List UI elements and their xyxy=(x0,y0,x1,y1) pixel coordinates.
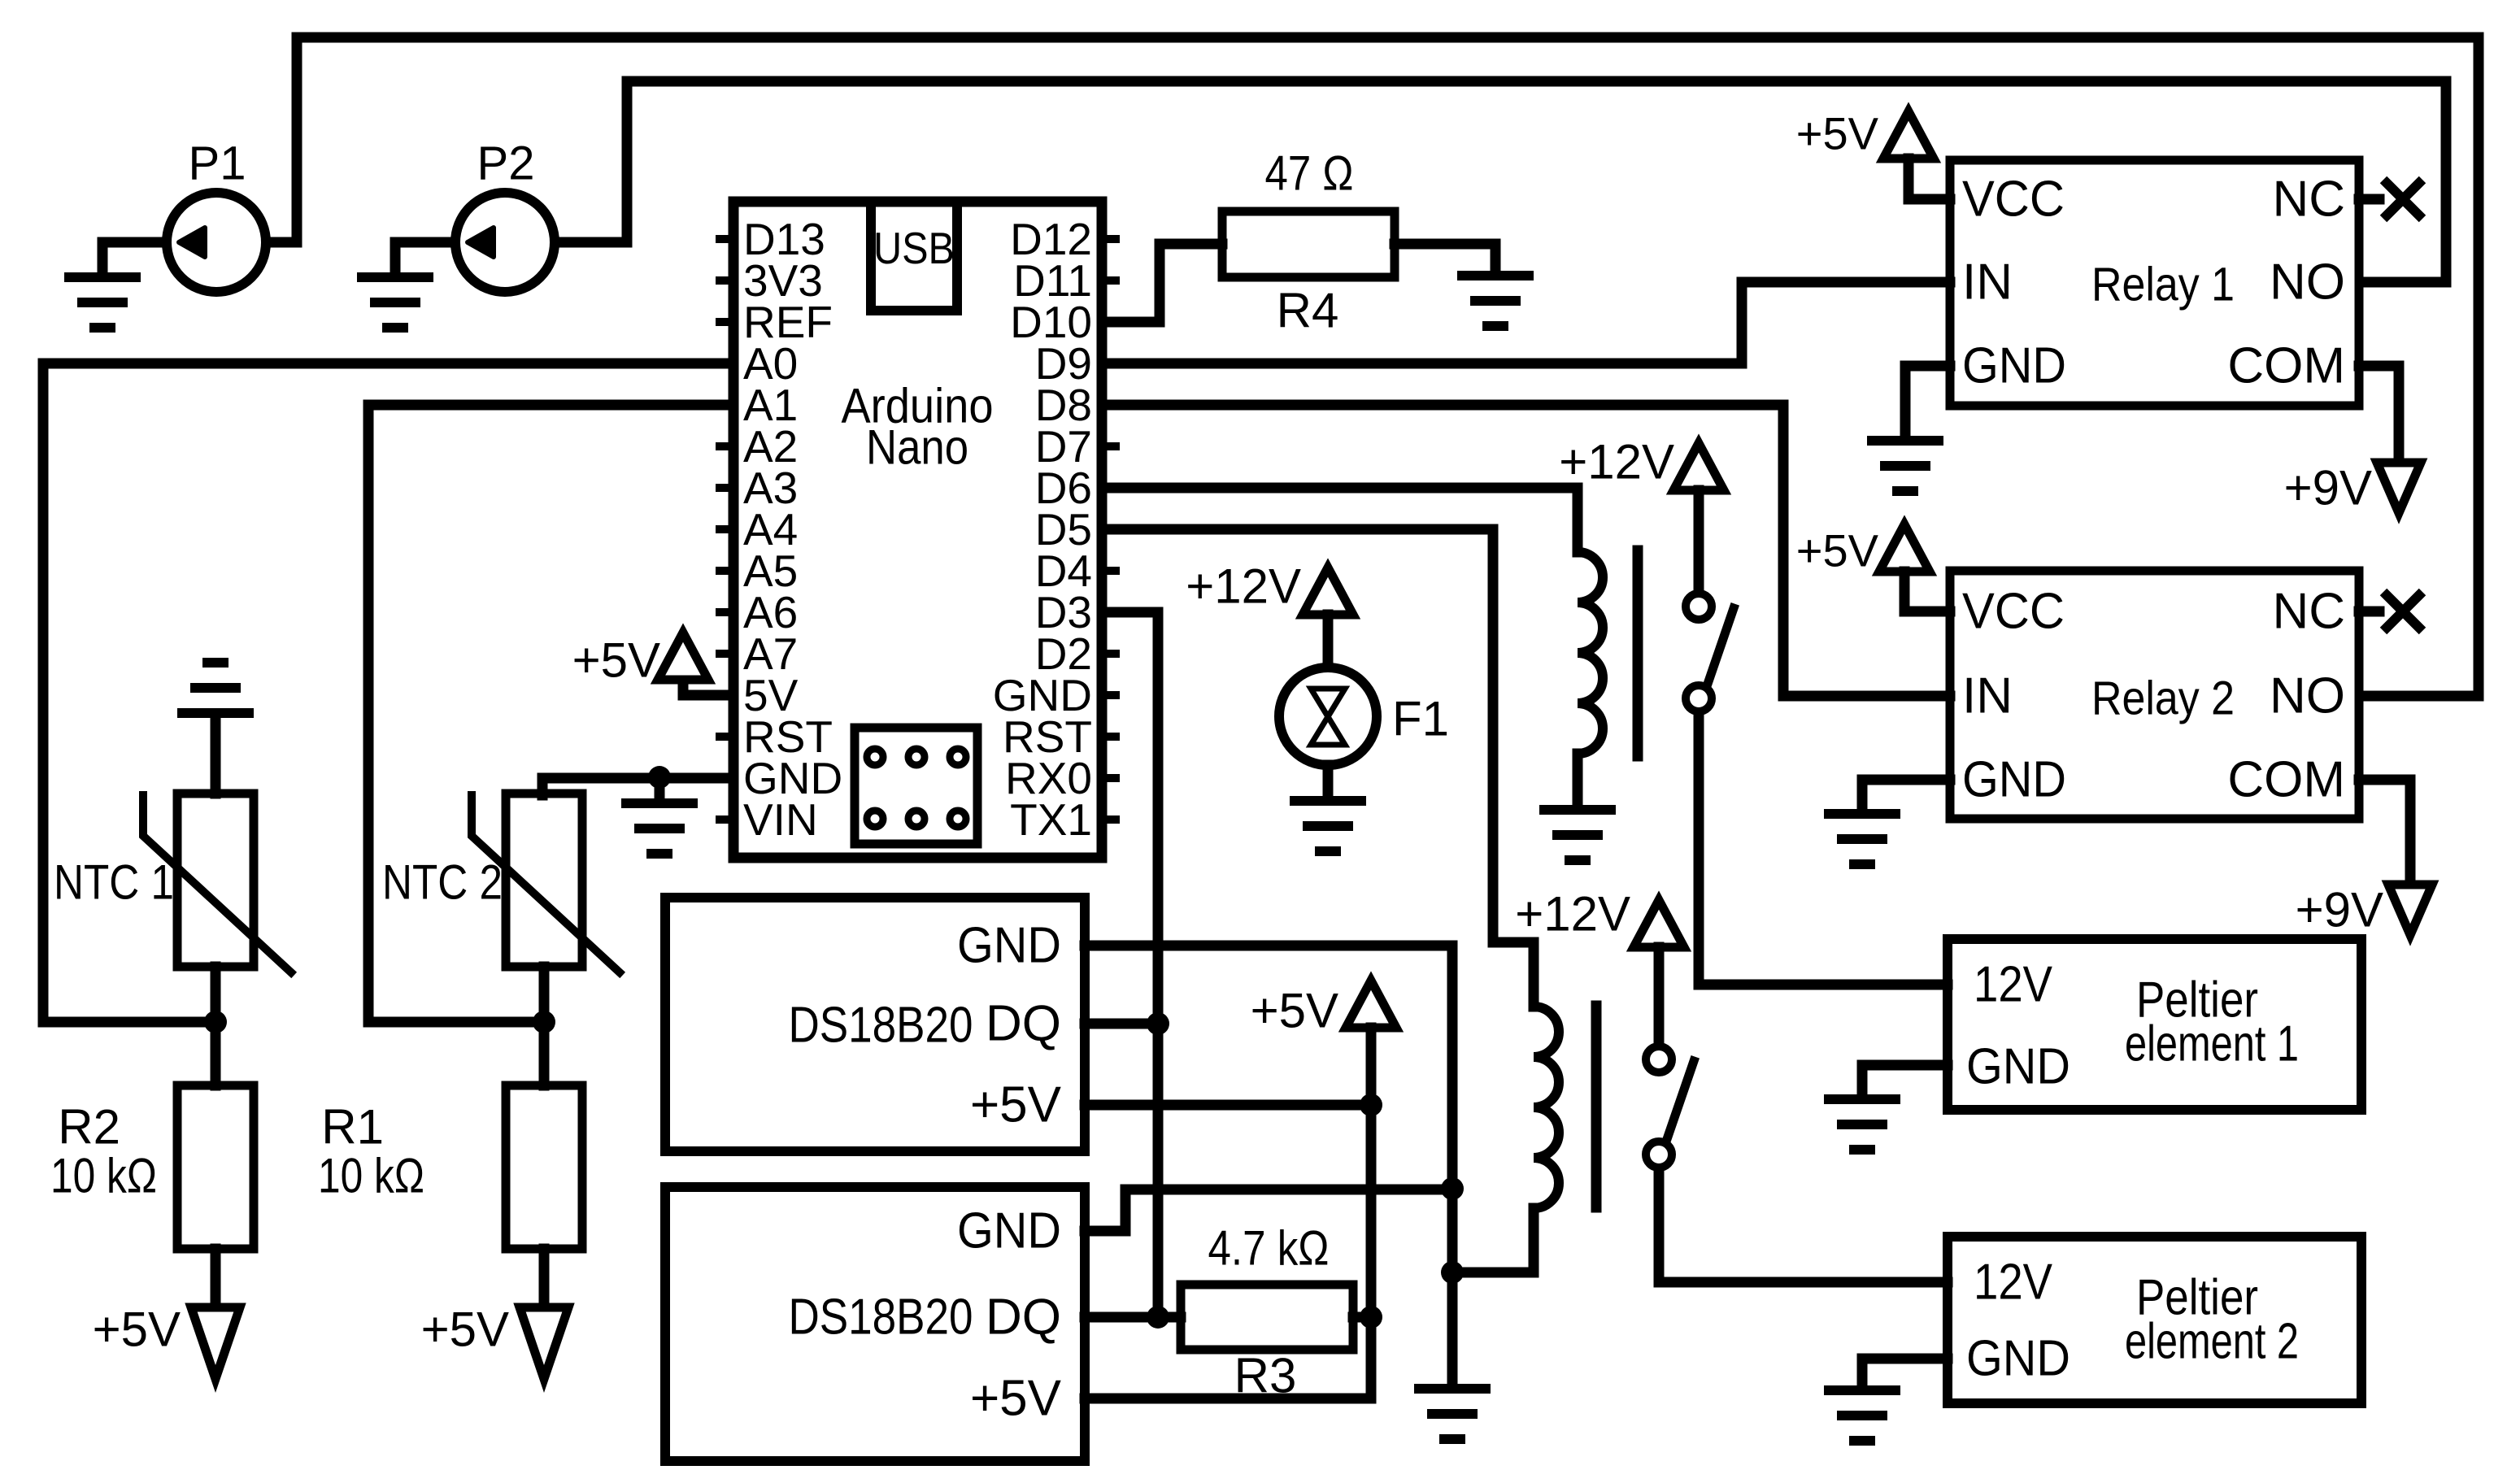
svg-text:12V: 12V xyxy=(1974,957,2053,1013)
label DS18B20 (2) xyxy=(789,1290,973,1346)
+5V arrow (Relay1) xyxy=(1883,111,1934,159)
wire GND Relay2 to ground xyxy=(1862,780,1950,809)
wire DS2 GND to gnd bus xyxy=(1085,1189,1452,1231)
svg-text:element 2: element 2 xyxy=(2125,1314,2299,1370)
wire NTC1 bottom to node xyxy=(211,967,221,1022)
wire COM Relay1 to +9V xyxy=(2359,366,2399,463)
pump P1 circle xyxy=(167,193,266,292)
+12V label (F1) xyxy=(1186,559,1301,614)
+5V arrow (sensor bus) xyxy=(1346,981,1396,1028)
Peltier element 2 box xyxy=(1948,1237,2361,1403)
wire L1 bottom to ground xyxy=(1573,754,1583,805)
+9V label (Relay1) xyxy=(2284,461,2372,515)
wire D3 data line to DQ junctions xyxy=(1104,612,1158,1317)
lamp F1 hourglass xyxy=(1311,689,1345,745)
svg-text:F1: F1 xyxy=(1392,692,1449,746)
label Peltier (1) xyxy=(2136,972,2258,1029)
ground Peltier1 xyxy=(1824,1099,1900,1150)
junction dot gnd bus 2 xyxy=(1441,1261,1464,1284)
ground sensor bus xyxy=(1414,1389,1491,1439)
label R4 value xyxy=(1265,146,1354,201)
label GND (Peltier1) xyxy=(1966,1039,2070,1095)
svg-text:+5V: +5V xyxy=(970,1371,1062,1427)
label F1 xyxy=(1392,692,1449,746)
junction dot +5V DS1 xyxy=(1360,1094,1382,1116)
wire gnd bus down to ground xyxy=(1447,1189,1458,1384)
svg-text:+5V: +5V xyxy=(1251,984,1338,1038)
DS18B20 sensor 2 box xyxy=(665,1187,1085,1461)
wire 5V pin to +5V arrow xyxy=(683,680,733,695)
svg-text:DS18B20: DS18B20 xyxy=(789,1290,973,1346)
label NO (Relay2) xyxy=(2270,668,2345,724)
relay coil L2 xyxy=(1534,1007,1559,1208)
svg-text:element 1: element 1 xyxy=(2125,1016,2299,1072)
label DS18B20 (1) xyxy=(789,998,973,1054)
svg-text:GND: GND xyxy=(957,918,1061,974)
svg-text:R4: R4 xyxy=(1277,284,1339,338)
+5V label (Relay1) xyxy=(1796,108,1879,159)
svg-text:+5V: +5V xyxy=(572,633,660,688)
resistor R2 body xyxy=(177,1085,254,1249)
wire +5V arrow to VCC (Relay2) xyxy=(1904,572,1950,611)
label COM (Relay1) xyxy=(2227,338,2345,394)
svg-text:+5V: +5V xyxy=(970,1077,1062,1133)
svg-text:R3: R3 xyxy=(1234,1349,1297,1403)
wire D8 to Relay2 IN xyxy=(1104,405,1950,696)
label P2 xyxy=(477,137,535,190)
label GND pin (DS1) xyxy=(957,918,1061,974)
relay Relay2 box xyxy=(1950,571,2359,819)
wire +12V arrow to F1 top xyxy=(1323,615,1334,665)
label Arduino xyxy=(842,379,994,433)
label Nano xyxy=(866,420,968,475)
+12V arrow (switch2) xyxy=(1634,900,1684,947)
label NTC 2 xyxy=(382,855,503,910)
label Relay 2 xyxy=(2091,672,2235,725)
label IN (Relay2) xyxy=(1962,668,2013,724)
svg-text:DQ: DQ xyxy=(986,1290,1061,1346)
wire DS1 DQ to D3 node xyxy=(1085,1019,1158,1029)
thermistor NTC2 diagonal xyxy=(472,795,620,972)
label R1 xyxy=(321,1100,384,1155)
ground F1 xyxy=(1290,801,1366,851)
resistor R1 body xyxy=(506,1085,582,1249)
label Relay 1 xyxy=(2091,259,2235,311)
wire R3 right xyxy=(1353,1312,1371,1323)
junction dot Arduino GND xyxy=(648,766,671,789)
wire D6 to relay coil L1 top xyxy=(1104,488,1578,552)
junction dot NTC1/R2 xyxy=(204,1011,227,1033)
label +5V below R2 xyxy=(93,1303,181,1357)
svg-text:GND: GND xyxy=(1966,1039,2070,1095)
wire D10 to R4 left xyxy=(1104,244,1222,322)
ground Relay2 xyxy=(1824,814,1900,864)
thermistor NTC2 body xyxy=(506,794,582,967)
svg-text:+12V: +12V xyxy=(1186,559,1301,614)
wire A1 to NTC2/R1 divider node xyxy=(368,405,733,1022)
+9V arrow (Relay1) xyxy=(2377,463,2421,513)
svg-text:R2: R2 xyxy=(58,1100,120,1155)
label USB xyxy=(873,223,955,273)
x mark NC Relay1 xyxy=(2383,180,2422,219)
label R2 xyxy=(58,1100,120,1155)
wire L2 bottom to GND node xyxy=(1452,1208,1534,1272)
label GND pin (DS2) xyxy=(957,1203,1061,1259)
ground P1 xyxy=(64,277,141,328)
wire P2 left terminal to ground xyxy=(395,242,455,272)
USB box xyxy=(871,202,957,311)
junction dot R3 right xyxy=(1360,1306,1382,1329)
+12V label (switch2) xyxy=(1515,887,1630,942)
svg-text:Relay 1: Relay 1 xyxy=(2091,259,2235,311)
svg-text:+12V: +12V xyxy=(1515,887,1630,942)
svg-text:+9V: +9V xyxy=(2296,883,2383,937)
switch2 blade xyxy=(1666,1061,1694,1142)
svg-text:NO: NO xyxy=(2270,668,2345,724)
wire switch2 to Peltier2 12V xyxy=(1659,1169,1948,1282)
svg-text:NTC 1: NTC 1 xyxy=(54,855,174,910)
svg-text:+5V: +5V xyxy=(93,1303,181,1357)
svg-text:Nano: Nano xyxy=(866,420,968,475)
svg-text:+5V: +5V xyxy=(1796,525,1879,576)
svg-text:VCC: VCC xyxy=(1962,584,2065,640)
label NC (Relay1) xyxy=(2272,172,2345,228)
x mark NC Relay2 xyxy=(2383,592,2422,631)
switch2 bottom contact xyxy=(1646,1142,1672,1168)
switch1 bottom contact xyxy=(1686,685,1712,711)
label R1 value xyxy=(318,1149,424,1203)
label element 2 xyxy=(2125,1314,2299,1370)
svg-text:VCC: VCC xyxy=(1962,172,2065,228)
ground Arduino GND xyxy=(621,803,698,854)
wire R3 left xyxy=(1158,1312,1181,1323)
relay core bar 1 xyxy=(1633,550,1643,756)
svg-text:DS18B20: DS18B20 xyxy=(789,998,973,1054)
junction dot DQ2 / R3 left xyxy=(1147,1306,1169,1329)
label IN (Relay1) xyxy=(1962,254,2013,311)
resistor R3 body xyxy=(1181,1285,1353,1350)
svg-text:IN: IN xyxy=(1962,668,2013,724)
wire COM Relay2 to +9V xyxy=(2359,780,2410,885)
svg-text:GND: GND xyxy=(1962,752,2066,808)
+12V label (switch1) xyxy=(1559,435,1674,489)
label GND (Relay1) xyxy=(1962,338,2066,394)
label VCC (Relay2) xyxy=(1962,584,2065,640)
wire R4 right to ground xyxy=(1395,244,1495,271)
svg-text:+5V: +5V xyxy=(1796,108,1879,159)
label GND (Relay2) xyxy=(1962,752,2066,808)
thermistor NTC1 body xyxy=(177,794,254,967)
ground L1 xyxy=(1539,810,1616,860)
wire switch1 to Peltier1 12V xyxy=(1699,713,1948,985)
svg-text:IN: IN xyxy=(1962,254,2013,311)
Arduino right pin labels xyxy=(993,214,1092,845)
+5V arrow (Relay2) xyxy=(1879,524,1930,572)
wire node to R2 top xyxy=(211,1022,221,1085)
wire arrow to switch2 top contact xyxy=(1654,947,1665,1045)
Arduino right pin ticks xyxy=(1102,239,1120,820)
label GND (Peltier2) xyxy=(1966,1331,2070,1387)
relay Relay1 box xyxy=(1950,160,2359,406)
wire P1 left terminal to ground xyxy=(102,242,167,272)
label NTC 1 xyxy=(54,855,174,910)
+5V label (Relay2) xyxy=(1796,525,1879,576)
wire R1 bottom to +5V arrow xyxy=(539,1249,550,1307)
label R2 value xyxy=(50,1149,157,1203)
Arduino Nano box xyxy=(733,202,1102,858)
label R4 xyxy=(1277,284,1339,338)
label Peltier (2) xyxy=(2136,1270,2258,1326)
wire DS1 +5V to +5V bus xyxy=(1085,1100,1371,1111)
label element 1 xyxy=(2125,1016,2299,1072)
svg-text:GND: GND xyxy=(1962,338,2066,394)
junction dot gnd bus 1 xyxy=(1441,1177,1464,1200)
wire stub Arduino GND to ground xyxy=(655,777,665,798)
wire +5V arrow down bus xyxy=(1366,1028,1377,1317)
+5V label (sensor bus) xyxy=(1251,984,1338,1038)
label DQ pin (DS2) xyxy=(986,1290,1061,1346)
+5V arrow below R2 (down) xyxy=(191,1307,240,1379)
label +5V below R1 xyxy=(421,1303,509,1357)
svg-text:Relay 2: Relay 2 xyxy=(2091,672,2235,725)
svg-text:COM: COM xyxy=(2227,752,2345,808)
label +5V pin (DS2) xyxy=(970,1371,1062,1427)
ground Relay1 xyxy=(1867,441,1943,491)
svg-text:+9V: +9V xyxy=(2284,461,2372,515)
wire ground to NTC1 top xyxy=(211,718,221,794)
no-connect stub NC Relay2 xyxy=(2359,607,2379,617)
svg-text:NTC 2: NTC 2 xyxy=(382,855,503,910)
wire Peltier2 GND to ground xyxy=(1862,1359,1948,1385)
wire DS1 GND to gnd bus xyxy=(1085,946,1452,1189)
wire DS2 DQ to D3 node xyxy=(1085,1312,1158,1323)
ground above NTC1 (inverted) xyxy=(177,663,254,713)
wire A0 to NTC1/R2 divider node xyxy=(43,363,733,1022)
svg-text:TX1: TX1 xyxy=(1010,794,1092,845)
ground R4 xyxy=(1457,276,1534,326)
ground P2 xyxy=(357,277,433,328)
label 12V (Peltier1) xyxy=(1974,957,2053,1013)
svg-text:+5V: +5V xyxy=(421,1303,509,1357)
label VCC (Relay1) xyxy=(1962,172,2065,228)
pump P1 arrow xyxy=(179,228,205,257)
resistor R4 body xyxy=(1222,211,1395,277)
svg-text:47 Ω: 47 Ω xyxy=(1265,146,1354,201)
ground Peltier2 xyxy=(1824,1390,1900,1441)
+5V arrow below R1 (down) xyxy=(520,1307,568,1379)
svg-text:4.7 kΩ: 4.7 kΩ xyxy=(1208,1221,1330,1276)
pump P2 circle xyxy=(455,193,555,292)
svg-text:GND: GND xyxy=(1966,1331,2070,1387)
pump P2 arrow xyxy=(468,228,494,257)
wire F1 bottom to ground xyxy=(1323,765,1334,796)
label +5V pin (DS1) xyxy=(970,1077,1062,1133)
Arduino left pin ticks xyxy=(716,239,733,820)
switch1 blade xyxy=(1706,608,1734,689)
wire R2 bottom to +5V arrow xyxy=(211,1249,221,1307)
wire NTC2 bottom to node xyxy=(539,967,550,1022)
svg-text:P2: P2 xyxy=(477,137,535,190)
wire +5V arrow to VCC (Relay1) xyxy=(1908,159,1950,199)
thermistor NTC1 diagonal xyxy=(143,795,291,972)
svg-text:10 kΩ: 10 kΩ xyxy=(318,1149,424,1203)
+9V label (Relay2) xyxy=(2296,883,2383,937)
wire Peltier1 GND to ground xyxy=(1862,1065,1948,1094)
+5V label (Arduino 5V) xyxy=(572,633,660,688)
label R3 value xyxy=(1208,1221,1330,1276)
Arduino left pin labels xyxy=(743,214,842,845)
svg-text:NC: NC xyxy=(2272,172,2345,228)
wire P2 right terminal to top rail 2 to Relay1 NO (net pump2) xyxy=(556,81,2446,282)
Arduino ICSP header xyxy=(855,728,977,844)
+5V arrow (Arduino 5V) xyxy=(658,633,708,680)
svg-text:DQ: DQ xyxy=(986,996,1061,1052)
label P1 xyxy=(189,137,246,190)
DS18B20 sensor 1 box xyxy=(665,898,1085,1151)
junction dot NTC2/R1 xyxy=(533,1011,555,1033)
label 12V (Peltier2) xyxy=(1974,1255,2053,1311)
label COM (Relay2) xyxy=(2227,752,2345,808)
svg-text:USB: USB xyxy=(873,223,955,273)
svg-text:12V: 12V xyxy=(1974,1255,2053,1311)
lamp F1 circle xyxy=(1279,668,1377,765)
label NC (Relay2) xyxy=(2272,584,2345,640)
no-connect stub NC Relay1 xyxy=(2359,194,2379,205)
label NO (Relay1) xyxy=(2270,254,2345,311)
wire DS2 +5V to +5V bus xyxy=(1085,1317,1371,1398)
wire D5 to relay coil L2 top xyxy=(1104,529,1534,1007)
label DQ pin (DS1) xyxy=(986,996,1061,1052)
wire D9 to Relay1 IN xyxy=(1104,282,1950,363)
Peltier element 1 box xyxy=(1948,939,2361,1110)
svg-text:P1: P1 xyxy=(189,137,246,190)
switch2 top contact xyxy=(1646,1046,1672,1072)
switch1 top contact xyxy=(1686,594,1712,620)
wire node to R1 top xyxy=(539,1022,550,1085)
+12V arrow (F1) xyxy=(1303,568,1353,615)
+9V arrow (Relay2) xyxy=(2388,885,2432,935)
wire arrow to switch1 top contact xyxy=(1694,490,1704,592)
svg-text:VIN: VIN xyxy=(743,794,818,845)
svg-text:NO: NO xyxy=(2270,254,2345,311)
svg-text:NC: NC xyxy=(2272,584,2345,640)
svg-text:GND: GND xyxy=(957,1203,1061,1259)
relay coil L1 xyxy=(1578,552,1603,754)
svg-text:R1: R1 xyxy=(321,1100,384,1155)
svg-text:+12V: +12V xyxy=(1559,435,1674,489)
junction dot DQ1 xyxy=(1147,1012,1169,1035)
label R3 xyxy=(1234,1349,1297,1403)
svg-text:COM: COM xyxy=(2227,338,2345,394)
svg-text:10 kΩ: 10 kΩ xyxy=(50,1149,157,1203)
+12V arrow (switch1) xyxy=(1673,443,1724,490)
wire P1 right terminal to top rail 1 to Relay1... (net pump1) xyxy=(269,37,2479,696)
wire Arduino GND to NTC2 top xyxy=(542,778,733,795)
relay core bar 2 xyxy=(1591,1006,1602,1207)
wire GND Relay1 to ground xyxy=(1905,366,1950,436)
